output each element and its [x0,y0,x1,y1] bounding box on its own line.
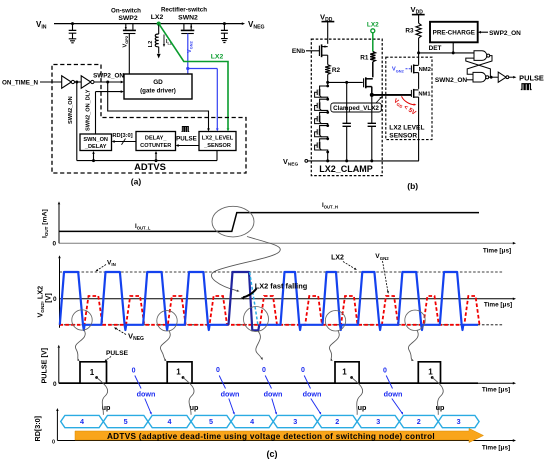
svg-text:Time [μs]: Time [μs] [484,302,512,309]
ground for input cap [69,39,77,43]
svg-text:VGN2: VGN2 [187,40,194,53]
svg-text:SWP2_ON: SWP2_ON [93,73,124,80]
svg-text:Time [μs]: Time [μs] [482,445,510,452]
label PULSE wave3 [104,350,129,362]
svg-text:0: 0 [132,368,136,375]
gate NAND1 [474,51,490,61]
block DELAY_COTUNTER [136,132,176,151]
label Clamped_VLX2 [331,96,383,112]
wire SWP2_ON to GD [94,81,124,84]
label LX2_CLAMP [319,164,373,174]
label VGN2 LX2 [V] [36,286,53,318]
label Time us wave2 [484,302,512,309]
svg-text:4: 4 [80,417,84,426]
waveform LX2 blue part2 [259,272,478,330]
wire LX2 sense (green) [159,24,230,132]
transistor SWP2 (on-switch) [111,8,141,75]
dashed slow fall reference [250,272,258,325]
svg-text:R2: R2 [332,67,341,74]
svg-text:2: 2 [335,417,339,426]
bus RD segments [61,415,479,427]
svg-text:SWN2_ON_DLY: SWN2_ON_DLY [86,89,92,131]
label NM2 [419,67,431,73]
svg-text:LX2: LX2 [331,255,344,262]
svg-text:Time [μs]: Time [μs] [482,387,510,394]
connector step to fastfall [211,237,280,293]
wire latch cross coupling [466,56,492,78]
svg-text:0: 0 [216,367,220,374]
wire VIN rail [54,22,245,25]
svg-text:SWN2_ON: SWN2_ON [435,77,467,84]
svg-text:(b): (b) [407,181,418,191]
current IL2 arrow [163,35,172,48]
annotation VGS<5V red [392,96,418,117]
diode-connected clamp stack [315,82,330,160]
label up annotations [102,403,445,412]
svg-text:On-switch: On-switch [111,8,141,15]
zoom circle 1 [72,310,92,362]
svg-text:ADTVS: ADTVS [134,161,166,172]
svg-text:0: 0 [53,296,57,303]
level VNEG dashed [60,324,504,326]
svg-text:SWN2: SWN2 [178,15,198,22]
svg-text:0: 0 [262,367,266,374]
svg-text:PULSE: PULSE [176,136,197,143]
axis wave2 [53,255,516,328]
svg-text:DET: DET [429,45,442,52]
svg-text:RD[3:0]: RD[3:0] [112,133,132,139]
svg-text:0: 0 [52,241,56,248]
svg-text:NM2: NM2 [419,67,431,73]
svg-text:(c): (c) [267,449,278,459]
label RD[3:0] [112,133,132,139]
svg-text:VGN2: VGN2 [392,67,405,74]
svg-text:1: 1 [176,368,181,377]
wire ON_TIME_N input [40,81,62,83]
svg-text:1: 1 [90,368,95,377]
svg-text:PULSE: PULSE [519,73,544,82]
node VIN label [36,20,47,31]
inverter I2 [81,76,94,88]
svg-text:(a): (a) [131,177,142,187]
svg-text:LX2_LEVEL: LX2_LEVEL [202,136,234,142]
svg-text:DELAY_: DELAY_ [145,136,167,142]
svg-text:ON_TIME_N: ON_TIME_N [2,80,38,87]
waveform LX2 fast falling pulse [229,272,260,330]
waveform PULSE trace [59,362,441,383]
svg-text:LX2 LEVEL: LX2 LEVEL [389,125,424,132]
inverter I1 [62,76,75,88]
svg-text:COTUNTER: COTUNTER [140,143,171,149]
label LX2 wave2 [331,255,357,271]
label VNEG with arrow [113,326,144,342]
svg-text:LX2: LX2 [211,54,224,61]
label IOUT_L [135,223,151,231]
wire inverter junction [75,81,82,84]
transistor NM1 [411,89,418,161]
zoom circle 3 [244,307,269,361]
wire SWP2_ON branch to sensor [108,82,210,132]
label PULSE (b) with glyph [519,73,544,89]
svg-text:down: down [384,390,403,399]
svg-text:down: down [221,390,240,399]
label down annotations [137,390,403,399]
block SWN_ON_DELAY [80,134,112,151]
node ON_TIME_N label [2,80,38,87]
transistor SWN2 (rectifier-switch) [161,7,207,34]
svg-text:0: 0 [301,367,305,374]
svg-text:SWP2: SWP2 [118,15,137,22]
wire clamp gate net [326,81,363,84]
block LX2_LEVEL_SENSOR [199,132,236,151]
svg-text:5: 5 [209,417,213,426]
svg-text:Time [μs]: Time [μs] [483,248,511,255]
label LX2 fast falling [241,281,308,299]
ellipse step zoom [212,206,254,237]
pulse value digits [90,367,434,377]
node LX2 [151,14,164,26]
svg-text:3: 3 [293,417,297,426]
block U-GD gate driver [124,74,192,99]
svg-text:LX2 fast falling: LX2 fast falling [255,281,308,290]
svg-text:_DELAY: _DELAY [84,144,107,150]
svg-text:0: 0 [52,440,55,446]
waveform VGN2 red dashed [60,296,481,325]
label VGN2 (b) [392,67,412,74]
svg-text:SWN2_ON: SWN2_ON [68,96,74,124]
svg-text:_SENSOR: _SENSOR [203,143,231,149]
svg-text:LX2: LX2 [367,22,379,29]
svg-text:4: 4 [168,417,172,426]
svg-text:R1: R1 [360,55,369,62]
label (a) [131,177,142,187]
label SWP2_ON [93,73,124,80]
svg-text:LX2_CLAMP: LX2_CLAMP [319,164,373,174]
wire VNEG rail (b) [308,159,419,162]
label SWN2_ON (b) [435,77,473,84]
curvy fall-to-up connectors [95,376,443,415]
label (b) [407,181,418,191]
block PRE-CHARGE [430,22,478,43]
label LX2 LEVEL SENSOR [389,125,424,140]
waveform IOUT trace [59,213,479,232]
axis IOUT [52,201,516,247]
svg-text:ENb: ENb [292,48,305,55]
node VNEG (b) [283,157,308,168]
transistor NM2 [411,53,418,89]
svg-text:LX2: LX2 [151,14,164,21]
svg-text:NM1: NM1 [418,92,431,98]
label PULSE with glyph [176,127,197,143]
resistor R3 [405,23,421,52]
inductor L2 [148,24,159,54]
ground for output cap [221,39,228,43]
label (c) [267,449,278,459]
svg-text:Rectifier-switch: Rectifier-switch [161,7,207,14]
svg-text:SENSOR: SENSOR [389,133,417,140]
resistor R2 [325,65,340,83]
axis RD [52,408,516,446]
zoom circle 4 [325,311,345,362]
wire VGN2 blue gate wire [186,34,218,132]
inverter output buffer [489,72,517,82]
svg-text:up: up [436,403,445,412]
LX2 LEVEL SENSOR dashed boundary [386,57,432,139]
label VIN with arrow [95,260,116,273]
capacitor output cap at VNEG [221,22,228,38]
svg-text:R3: R3 [405,28,414,35]
resistor R1 [360,52,375,78]
svg-text:SWP2_ON: SWP2_ON [489,30,521,37]
axis PULSE [53,345,516,388]
wire PULSE arrow [176,144,200,147]
svg-text:1: 1 [342,368,347,377]
svg-text:Clamped_VLX2: Clamped_VLX2 [333,105,379,112]
gate NAND2 [473,72,489,82]
label VGN2 wave2 [375,253,389,294]
label RD[3:0] axis [33,416,42,442]
svg-text:(gate driver): (gate driver) [140,88,176,95]
zoom circle 2 [157,311,177,362]
svg-text:up: up [358,403,367,412]
label IOUT_H [322,202,338,210]
transistor clamp NMOS [364,77,373,95]
zoom circle 5 [405,310,425,362]
power VDD (left) [320,13,334,44]
node LX2 input (green circle) [367,22,379,52]
ground arrow under L2 [157,54,161,59]
svg-text:SWN_ON: SWN_ON [83,137,108,143]
node Clamped_VLX2 [370,93,411,97]
svg-text:ADTVS (adaptive dead-time usin: ADTVS (adaptive dead-time using voltage … [107,432,435,441]
svg-text:[V]: [V] [44,293,53,303]
wire DET net [417,51,474,54]
wire SWN2_ON vertical [76,82,78,161]
svg-text:1: 1 [428,368,433,377]
label LX2 green net [211,54,224,61]
wire SWP2_ON into PRE-CHARGE [478,31,488,34]
capacitor clamp C2 [368,95,376,161]
svg-text:down: down [137,390,156,399]
svg-text:PULSE [V]: PULSE [V] [40,348,49,384]
svg-text:GD: GD [153,79,163,86]
svg-text:4: 4 [250,417,254,426]
svg-text:0: 0 [383,367,387,374]
label NM1 [418,92,431,98]
svg-text:down: down [303,390,322,399]
svg-text:down: down [264,390,283,399]
capacitor clamp C1 [343,82,351,160]
svg-text:5: 5 [124,417,128,426]
svg-text:3: 3 [376,417,380,426]
label Time us wave3 [482,387,510,394]
ADTVS control banner [75,428,484,442]
wire feedback bus bottom [77,151,217,163]
transistor ENb PMOS [306,44,328,64]
label IOUT [mA] [42,209,50,238]
svg-text:PRE-CHARGE: PRE-CHARGE [433,30,475,37]
svg-text:L2: L2 [148,41,154,48]
svg-text:PULSE: PULSE [106,350,129,357]
level VIN dashed [60,271,504,273]
svg-text:2: 2 [417,417,421,426]
svg-text:VGP2: VGP2 [123,35,130,47]
label SWN2_ON_DLY rotated [86,89,92,131]
label SWN2_ON rotated [68,96,74,124]
wire PRE-CHARGE to DET [452,42,454,53]
power VDD (right) [411,5,425,23]
label SWP2_ON (b) [489,30,521,37]
label ENb [292,48,305,55]
label PULSE [V] [40,348,49,384]
wire RD[3:0] bus arrow [112,139,137,145]
svg-text:0: 0 [53,381,57,388]
node VNEG label (a) [248,20,265,31]
LX2_CLAMP dashed boundary [311,39,382,176]
wire SWN2_ON_DLY to GD [96,90,124,134]
label VGN2 (a) [187,40,194,53]
svg-text:3: 3 [457,417,461,426]
label ADTVS [134,161,166,172]
svg-text:RD[3:0]: RD[3:0] [33,416,42,442]
ADTVS dashed boundary [52,65,246,174]
waveform LX2 blue part1 [60,272,229,330]
label Time us RD [482,445,510,452]
capacitor input cap at VIN [69,22,77,39]
label Time us wave1 [483,248,511,255]
label VGP2 [123,35,130,47]
blue arrows 0-down-bus [135,376,404,416]
label DET [429,45,442,52]
